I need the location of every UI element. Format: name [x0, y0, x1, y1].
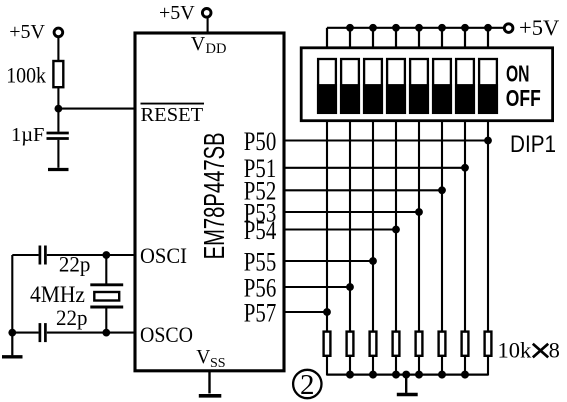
svg-text:1µF: 1µF — [11, 124, 44, 146]
wire left rail to ground — [11, 333, 13, 356]
wire +5V top bus — [327, 27, 504, 29]
svg-text:SS: SS — [210, 356, 226, 371]
junction bottom bus — [369, 371, 377, 379]
wire bottom ground bus — [327, 374, 488, 376]
svg-text:P54: P54 — [244, 216, 277, 245]
resistor R3 10k — [347, 332, 354, 356]
switch S7 (OFF position) — [455, 59, 475, 114]
junction top bus / S8 — [484, 24, 492, 32]
junction top bus / S5 — [415, 24, 423, 32]
wire R1 to node A — [57, 87, 59, 132]
wire +5V terminal to R1 — [57, 37, 59, 61]
wire bus to switch S3 — [372, 28, 374, 49]
wire switch S1 column (DIP to resistor) — [326, 121, 328, 332]
svg-text:OFF: OFF — [506, 85, 541, 111]
pin label VDD — [191, 33, 227, 57]
junction P51 / column — [461, 164, 469, 172]
svg-text:+5V: +5V — [9, 21, 45, 43]
svg-text:P55: P55 — [244, 247, 277, 276]
wire crystal top lead — [105, 255, 107, 285]
wire C1 to ground — [57, 140, 59, 168]
svg-text:OSCI: OSCI — [140, 243, 187, 268]
wire P56 net — [284, 286, 350, 288]
capacitor C3 22p — [40, 323, 46, 342]
wire R8 to bottom bus — [464, 357, 466, 376]
wire bottom bus to ground — [405, 375, 407, 393]
wire OSCI net (right segment to OSCI pin) — [47, 254, 137, 256]
svg-text:22p: 22p — [56, 305, 88, 330]
wire R4 to bottom bus — [372, 357, 374, 376]
wire switch S6 column (DIP to resistor) — [441, 121, 443, 332]
switch S8 (OFF position) — [478, 59, 498, 114]
switch S6 (OFF position) — [432, 59, 452, 114]
junction P53 / column — [415, 208, 423, 216]
wire bus to switch S5 — [418, 28, 420, 49]
svg-text:100k: 100k — [6, 63, 46, 88]
wire switch S7 column (DIP to resistor) — [464, 121, 466, 332]
junction P54 / column — [392, 226, 400, 234]
junction left rail / OSCO / ground — [8, 329, 16, 337]
capacitor C1 1uF — [47, 133, 69, 139]
wire P55 net — [284, 260, 373, 262]
resistor R6 10k — [416, 332, 423, 356]
junction top bus / S3 — [369, 24, 377, 32]
wire R9 to bottom bus — [487, 357, 489, 376]
resistor R7 10k — [439, 332, 446, 356]
junction P52 / column — [438, 186, 446, 194]
wire +5V terminal to VDD pin — [207, 18, 209, 35]
junction bottom bus — [346, 371, 354, 379]
svg-text:V: V — [196, 347, 210, 368]
junction top bus / S6 — [438, 24, 446, 32]
junction top bus / S4 — [392, 24, 400, 32]
ground (pull-down resistors) — [397, 393, 418, 396]
svg-text:OSCO: OSCO — [140, 322, 193, 347]
wire switch S3 column (DIP to resistor) — [372, 121, 374, 332]
resistor R8 10k — [462, 332, 469, 356]
wire R7 to bottom bus — [441, 357, 443, 376]
wire P50 net — [284, 139, 488, 141]
pin label RESET (active low, overline) — [141, 104, 205, 127]
DIP switch DIP1 body — [301, 48, 552, 121]
wire VSS pin to ground — [208, 371, 210, 394]
wire node A to IC RESET pin — [58, 108, 136, 110]
wire P51 net — [284, 167, 465, 169]
junction P56 / column — [346, 283, 354, 291]
svg-text:+5V: +5V — [159, 2, 195, 24]
svg-text:ON: ON — [506, 61, 530, 87]
resistor R4 10k — [370, 332, 377, 356]
power terminal +5V (VDD) — [159, 2, 211, 24]
ground (oscillator) — [2, 355, 23, 358]
power terminal +5V (DIP bus) — [504, 15, 559, 40]
wire R5 to bottom bus — [395, 357, 397, 376]
wire bus to switch S7 — [464, 28, 466, 49]
junction OSCO net / crystal — [102, 329, 110, 337]
svg-text:2: 2 — [300, 369, 315, 401]
wire bus to switch S2 — [349, 28, 351, 49]
junction P55 / column — [369, 257, 377, 265]
wire R2 to bottom bus — [326, 357, 328, 376]
resistor R9 10k — [485, 332, 492, 356]
wire crystal bottom lead — [105, 307, 107, 333]
switch S2 (OFF position) — [340, 59, 360, 114]
figure number 2 (circled) — [293, 369, 321, 401]
switch S5 (OFF position) — [409, 59, 429, 114]
crystal Y1 — [90, 285, 123, 307]
ground (VSS) — [199, 394, 222, 398]
svg-text:DIP1: DIP1 — [510, 131, 556, 158]
svg-text:+5V: +5V — [519, 15, 559, 40]
wire switch S2 column (DIP to resistor) — [349, 121, 351, 332]
pin label VSS — [196, 347, 225, 371]
svg-text:P50: P50 — [244, 127, 277, 156]
junction OSCI net / crystal — [102, 251, 110, 259]
junction bottom bus — [392, 371, 400, 379]
power terminal +5V (reset circuit) — [9, 21, 63, 43]
junction node A (RESET net) — [55, 105, 63, 113]
wire R3 to bottom bus — [349, 357, 351, 376]
wire bus to switch S1 — [326, 28, 328, 49]
IC U1 EM78P447SB body — [135, 33, 284, 371]
value label 10k×8 — [498, 338, 560, 363]
resistor R5 10k — [393, 332, 400, 356]
svg-text:RESET: RESET — [141, 104, 204, 126]
switch S3 (OFF position) — [363, 59, 383, 114]
wire P53 net — [284, 211, 419, 213]
wire bus to switch S8 — [487, 28, 489, 49]
svg-text:EM78P447SB: EM78P447SB — [199, 132, 231, 259]
svg-text:P57: P57 — [244, 298, 277, 327]
wire OSCO net (left segment) — [12, 332, 38, 334]
svg-text:V: V — [191, 33, 206, 55]
ground (reset circuit) — [48, 168, 69, 171]
junction top bus / S7 — [461, 24, 469, 32]
junction bottom bus — [415, 371, 423, 379]
wire switch S8 column (DIP to resistor) — [487, 121, 489, 332]
wire OSCO net (right segment to OSCO pin) — [47, 332, 137, 334]
wire P52 net — [284, 189, 442, 191]
wire OSCI net (left segment) — [12, 254, 38, 256]
switch S4 (OFF position) — [386, 59, 406, 114]
wire R6 to bottom bus — [418, 357, 420, 376]
wire bus to switch S6 — [441, 28, 443, 49]
wire P54 net — [284, 228, 396, 230]
resistor R2 10k — [324, 332, 331, 356]
svg-text:10k: 10k — [498, 338, 533, 363]
junction P50 / column — [484, 137, 492, 145]
svg-text:4MHz: 4MHz — [30, 282, 85, 307]
wire oscillator left rail — [11, 255, 13, 333]
junction bottom bus — [402, 371, 410, 379]
junction P57 / column — [323, 308, 331, 316]
switch S1 (OFF position) — [317, 59, 337, 114]
junction bottom bus — [461, 371, 469, 379]
wire switch S5 column (DIP to resistor) — [418, 121, 420, 332]
wire switch S4 column (DIP to resistor) — [395, 121, 397, 332]
junction top bus / S2 — [346, 24, 354, 32]
wire bus to switch S4 — [395, 28, 397, 49]
capacitor C2 22p — [40, 246, 46, 265]
junction bottom bus — [438, 371, 446, 379]
svg-text:8: 8 — [549, 338, 560, 363]
svg-text:DD: DD — [206, 41, 227, 57]
resistor R1 100k — [53, 61, 63, 87]
wire P57 net — [284, 311, 327, 313]
